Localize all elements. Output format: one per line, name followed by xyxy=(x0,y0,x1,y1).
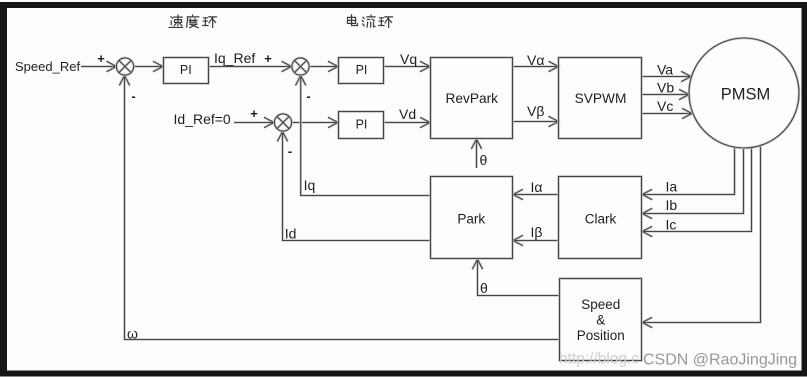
svg-text:Vq: Vq xyxy=(400,51,417,67)
svg-text:Ic: Ic xyxy=(666,217,677,233)
wire PMSM to Clark (Ia) xyxy=(642,147,734,200)
svg-text:Park: Park xyxy=(457,212,485,227)
svg-text:Id_Ref=0: Id_Ref=0 xyxy=(174,111,231,127)
svg-text:ω: ω xyxy=(127,326,138,342)
wire Speed_Ref input xyxy=(81,61,117,71)
svg-text:Iα: Iα xyxy=(531,179,543,195)
wire Clark to Park (Ibeta) xyxy=(513,235,559,245)
chinese label current loop xyxy=(347,15,392,28)
wire PI2 to RevPark (Vq) xyxy=(384,61,431,71)
wire SVPWM to PMSM (Vc) xyxy=(642,108,693,118)
motor PMSM circle xyxy=(689,38,799,148)
svg-text:http://blog.c: http://blog.c xyxy=(559,351,639,368)
wire SVPWM to PMSM (Va) xyxy=(642,71,692,81)
block Clark xyxy=(559,177,642,259)
svg-text:&: & xyxy=(596,313,605,328)
svg-text:Vd: Vd xyxy=(399,106,416,122)
wire Park to J2 (Iq feedback) xyxy=(296,76,431,196)
wire PI3 to RevPark (Vd) xyxy=(384,117,431,127)
wire RevPark to SVPWM (Vbeta) xyxy=(513,116,559,126)
svg-text:Position: Position xyxy=(577,328,625,343)
summing junction J1 xyxy=(116,58,133,75)
svg-text:Vb: Vb xyxy=(657,80,674,96)
wire J3 to PI3 xyxy=(292,117,338,127)
summing junction J2 xyxy=(292,58,309,75)
svg-text:Iq: Iq xyxy=(304,177,316,193)
svg-text:Clark: Clark xyxy=(585,212,617,227)
svg-text:+: + xyxy=(264,51,272,66)
wire PMSM to Clark (Ib) xyxy=(642,148,743,218)
svg-text:Va: Va xyxy=(657,62,673,78)
block RevPark xyxy=(431,58,513,139)
wire J2 to PI2 xyxy=(309,61,338,71)
block SVPWM xyxy=(559,58,642,139)
wire PI1 to J2 (Iq_Ref) xyxy=(209,61,292,71)
svg-text:θ: θ xyxy=(480,152,488,168)
svg-text:θ: θ xyxy=(480,280,488,296)
svg-text:Ib: Ib xyxy=(666,197,678,213)
svg-text:+: + xyxy=(97,51,105,66)
wire RevPark to SVPWM (Valpha) xyxy=(513,61,559,71)
block Speed-Position xyxy=(560,279,642,361)
label Speed-Position lines xyxy=(577,297,625,343)
svg-text:Vc: Vc xyxy=(657,98,673,114)
wire SVPWM to PMSM (Vb) xyxy=(642,89,690,99)
svg-text:Speed: Speed xyxy=(581,297,620,312)
wire PMSM to Clark (Ic) xyxy=(642,148,751,237)
wire J1 to PI1 xyxy=(134,61,163,71)
svg-text:Id: Id xyxy=(285,226,297,242)
svg-text:PMSM: PMSM xyxy=(721,86,771,104)
svg-text:Iβ: Iβ xyxy=(531,224,543,240)
svg-text:-: - xyxy=(288,144,292,159)
block PI1 xyxy=(164,58,209,84)
wire Speed-Position to J1 (omega feedback) xyxy=(119,76,559,340)
svg-text:-: - xyxy=(131,89,135,104)
wire Clark to Park (Ialpha) xyxy=(513,189,559,199)
svg-text:Vα: Vα xyxy=(527,52,544,68)
svg-text:+: + xyxy=(250,106,258,121)
summing junction J3 xyxy=(274,114,291,131)
block PI2 xyxy=(339,58,384,84)
wire theta stub into RevPark xyxy=(471,139,481,168)
svg-text:Iq_Ref: Iq_Ref xyxy=(214,50,255,66)
block PI3 xyxy=(339,112,384,139)
svg-text:PI: PI xyxy=(356,63,368,77)
wire Id_Ref input xyxy=(234,117,274,127)
wire PMSM to Speed-Position xyxy=(642,146,760,328)
svg-text:RevPark: RevPark xyxy=(446,91,499,106)
svg-text:Speed_Ref: Speed_Ref xyxy=(15,59,80,74)
svg-text:PI: PI xyxy=(180,63,192,77)
svg-text:CSDN @RaoJingJing: CSDN @RaoJingJing xyxy=(643,352,797,369)
svg-text:Ia: Ia xyxy=(666,179,678,195)
wire Park to J3 (Id feedback) xyxy=(277,132,430,241)
svg-text:SVPWM: SVPWM xyxy=(575,91,627,106)
svg-text:-: - xyxy=(306,89,310,104)
chinese label speed loop xyxy=(169,15,216,28)
wire Speed-Position to Park (theta) xyxy=(472,259,559,295)
svg-text:PI: PI xyxy=(356,118,368,132)
svg-text:Vβ: Vβ xyxy=(527,103,544,119)
block Park xyxy=(431,177,513,259)
